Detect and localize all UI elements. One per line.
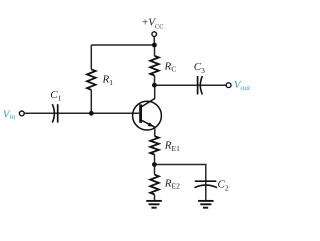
terminal Vcc	[152, 32, 157, 37]
resistor R1	[87, 69, 96, 90]
transistor Q1 collector diagonal	[141, 98, 155, 107]
svg-text:Vout: Vout	[234, 79, 251, 92]
svg-text:RE1: RE1	[164, 140, 180, 153]
capacitor C1 straight plate	[57, 104, 59, 122]
wire collector vertical	[154, 85, 156, 98]
svg-text:RE2: RE2	[164, 177, 180, 190]
wire RE2 ground lead	[154, 195, 156, 201]
resistor RC	[150, 56, 159, 76]
resistor RE2	[150, 175, 159, 195]
resistor RE1	[150, 136, 159, 154]
capacitor C2 straight plate	[195, 180, 217, 182]
capacitor C3 curved plate	[200, 76, 202, 94]
wire collector to Vout through C3	[155, 84, 227, 86]
wire Vcc terminal stem	[153, 36, 155, 45]
svg-text:Vin: Vin	[3, 108, 16, 121]
svg-text:R1: R1	[102, 73, 114, 87]
junction dot base node	[89, 111, 94, 116]
wire RE2 top lead	[154, 165, 156, 175]
svg-text:C2: C2	[218, 178, 229, 192]
wire base wire from Vin through C1 to transistor base	[24, 112, 139, 114]
terminal Vin	[19, 111, 24, 116]
junction dot emitter divider node	[152, 162, 157, 167]
wire top rail from R1 to Vcc node	[91, 44, 154, 46]
wire emitter vertical	[154, 127, 156, 136]
wire emitter node to C2	[155, 165, 206, 201]
capacitor C3 straight plate	[197, 76, 199, 94]
wire RE1 bottom lead	[154, 155, 156, 165]
capacitor C1 curved plate	[52, 104, 54, 122]
junction dot collector node	[152, 83, 157, 88]
wire R1 top lead	[90, 45, 92, 69]
capacitor C2 curved plate	[195, 185, 218, 188]
svg-text:C3: C3	[194, 61, 205, 75]
svg-text:RC: RC	[164, 61, 177, 74]
wire RC bottom lead	[154, 76, 156, 86]
junction dot Vcc node	[152, 43, 157, 48]
ground under RE2	[146, 201, 162, 208]
wire R1 bottom lead	[90, 90, 92, 114]
svg-text:+VCC: +VCC	[142, 17, 163, 31]
terminal Vout	[226, 83, 231, 88]
wire RC top lead	[154, 45, 156, 56]
transistor Q1 emitter arrowhead	[148, 122, 154, 127]
transistor Q1 emitter diagonal	[141, 120, 155, 127]
transistor Q1 base bar	[139, 104, 142, 122]
svg-text:C1: C1	[50, 89, 61, 103]
ground under C2	[198, 201, 214, 208]
transistor Q1 circle	[133, 101, 162, 130]
